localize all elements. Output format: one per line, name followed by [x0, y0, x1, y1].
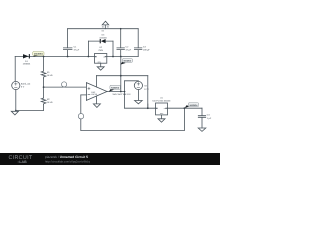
ground (U2) — [97, 67, 104, 70]
flag NODE2 — [109, 85, 121, 91]
voltage source V2 — [134, 81, 142, 89]
junction dots — [15, 28, 185, 111]
probe flag P2 — [78, 114, 83, 120]
wire op-amp V- stub — [95, 96, 97, 104]
resistor R1 — [41, 57, 46, 79]
wire op-amp output — [107, 91, 125, 93]
svg-text:1N4004: 1N4004 — [23, 63, 31, 66]
svg-text:1N4004: 1N4004 — [99, 36, 107, 39]
voltage source V1 — [12, 81, 20, 89]
resistor R2 — [41, 98, 46, 105]
wire feedback right vertical — [183, 108, 185, 130]
wire R2 bottom stub — [43, 105, 45, 111]
svg-text:15 kΩ: 15 kΩ — [47, 74, 53, 77]
svg-text:12 V: 12 V — [144, 88, 149, 91]
wire supply rail — [96, 75, 147, 77]
footer band — [0, 153, 220, 165]
svg-text:W5 WITNESS: W5 WITNESS — [113, 93, 132, 96]
svg-text:MCP1700-3302E: MCP1700-3302E — [152, 99, 171, 102]
wire U1 input junction — [147, 104, 149, 108]
wire main horizontal — [15, 56, 138, 58]
wire V2 bottom stub — [137, 90, 139, 101]
wire V2 loop left — [124, 81, 126, 108]
flag NODE1 (yellow) — [33, 52, 44, 57]
wire top rail — [68, 28, 139, 30]
svg-text:NODE2: NODE2 — [111, 87, 120, 90]
ground (U1) — [158, 119, 165, 122]
svg-text:NODE4: NODE4 — [190, 104, 199, 107]
ground (op-amp) — [93, 104, 100, 108]
diode D3 — [100, 39, 106, 43]
flag NODE3 — [120, 59, 132, 65]
svg-text:NODE3: NODE3 — [124, 60, 133, 63]
svg-text:http://circuitlab.com/c6pq2ov/: http://circuitlab.com/c6pq2ov/cr9b5q — [45, 160, 90, 164]
svg-text:LM741: LM741 — [91, 93, 98, 96]
op-amp OA2 LM741 — [86, 83, 107, 101]
wire feedback bottom — [81, 129, 185, 131]
svg-text:100 µF: 100 µF — [143, 48, 151, 51]
wire D3 bypass left — [87, 41, 89, 56]
wire U1 gnd stub — [161, 115, 163, 119]
svg-text:1 µF: 1 µF — [207, 117, 212, 120]
wire V1 bottom stub — [15, 90, 17, 111]
svg-text:Band_out: Band_out — [21, 82, 31, 85]
wire C2/output vertical — [120, 57, 122, 92]
svg-text:15 kΩ: 15 kΩ — [47, 101, 53, 104]
wire V1 top stub — [14, 57, 16, 82]
capacitor C3 — [134, 29, 142, 57]
regulator U1 MCP1700 — [156, 103, 168, 115]
wire U2 gnd stub — [100, 63, 102, 66]
wire R1-R2 — [43, 78, 45, 98]
capacitor C2 — [117, 29, 125, 57]
wire U1 output — [168, 107, 203, 109]
svg-text:5 V: 5 V — [21, 86, 25, 89]
svg-text:47 µF: 47 µF — [126, 48, 132, 51]
wire V2 loop right — [147, 76, 149, 109]
wire V2 top link — [125, 80, 139, 83]
svg-text:47 µF: 47 µF — [74, 48, 80, 51]
probe flag P1 — [62, 82, 67, 87]
regulator U2 7905 — [95, 54, 107, 64]
diode D1 — [23, 54, 30, 58]
capacitor C1 — [63, 29, 72, 57]
wire D3 bypass top — [88, 40, 113, 42]
component labels — [21, 30, 212, 120]
wire R2 bottom to V1 — [16, 109, 44, 111]
ground (V2) — [135, 101, 143, 104]
wire V2 loop bottom — [125, 107, 156, 109]
wire noninverting input — [44, 86, 87, 88]
svg-text:≈LAB: ≈LAB — [18, 160, 28, 164]
svg-text:1N4004: 1N4004 — [34, 53, 44, 56]
wire D3 bypass right — [112, 41, 114, 56]
wire inverting input — [81, 94, 87, 96]
wire op-amp V+ stub — [95, 76, 97, 87]
ground (V1) — [11, 111, 18, 115]
svg-text:piazerek / Unnamed Circuit 5: piazerek / Unnamed Circuit 5 — [45, 155, 88, 159]
ground (C4) — [198, 128, 206, 131]
wire feedback left vertical — [80, 95, 82, 130]
flag NODE4 — [185, 103, 199, 108]
power flag V+ — [102, 21, 109, 29]
capacitor C4 — [198, 108, 205, 128]
